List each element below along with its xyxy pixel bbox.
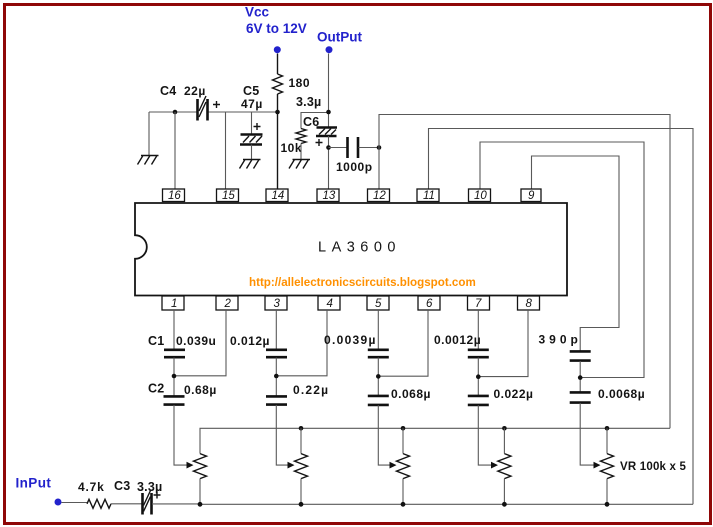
svg-text:10k: 10k xyxy=(281,141,303,155)
wire pot5 bottom xyxy=(606,479,608,505)
pin 16 xyxy=(163,189,185,202)
svg-text:5: 5 xyxy=(375,298,382,310)
svg-text:0.068µ: 0.068µ xyxy=(391,387,431,401)
capacitor 0.0068u xyxy=(570,387,645,403)
ground (under 10k) xyxy=(289,160,310,169)
node junction Vcc rail / R180 / pin14 xyxy=(275,110,280,115)
wire 10k to ground xyxy=(300,144,302,160)
wire to node2 xyxy=(275,358,277,397)
wire 1000p to pin12 line xyxy=(359,147,380,149)
pin 1 xyxy=(162,296,184,310)
svg-text:22µ: 22µ xyxy=(184,84,206,98)
svg-text:7: 7 xyxy=(475,298,482,310)
svg-text:3.3µ: 3.3µ xyxy=(137,480,162,494)
svg-text:C5: C5 xyxy=(243,84,259,98)
wire to node4 xyxy=(477,358,479,396)
wire pot3 bottom xyxy=(402,479,404,505)
capacitor 0.012u xyxy=(230,334,287,357)
pin 4 xyxy=(318,296,340,310)
capacitor C6 3.3u (polarized) xyxy=(296,95,337,146)
wire C1 to node1 xyxy=(173,358,175,397)
svg-text:0.0039µ: 0.0039µ xyxy=(324,333,377,347)
wire rail to C5 xyxy=(251,112,253,134)
svg-text:180: 180 xyxy=(289,76,311,90)
wire pin9 net (up over right, down to 390p top) xyxy=(532,156,620,351)
wire C2 to pot1 wiper xyxy=(174,405,187,465)
potentiometer VR5 xyxy=(601,454,687,479)
node band4 xyxy=(476,374,481,379)
wiper arrow pot4 xyxy=(491,462,498,469)
wire pin6 to node3 xyxy=(378,310,428,376)
svg-text:VR 100k x 5: VR 100k x 5 xyxy=(620,461,687,473)
pin 5 xyxy=(367,296,389,310)
node pot4 bottom xyxy=(502,502,507,507)
node pot2 bottom xyxy=(299,502,304,507)
node junction output/C6 top xyxy=(326,110,331,115)
node pot1 bottom xyxy=(198,502,203,507)
svg-text:http://allelectronicscircuits.: http://allelectronicscircuits.blogspot.c… xyxy=(249,276,476,289)
svg-text:C6: C6 xyxy=(303,115,319,129)
wire top supply rail (left of C4) xyxy=(149,111,197,113)
wire C6 node to 1000p xyxy=(329,147,348,149)
capacitor 0.022u xyxy=(468,387,534,405)
capacitor 0.0039u xyxy=(324,333,389,357)
wire pot4 bottom xyxy=(503,479,505,505)
capacitor C1 0.039u xyxy=(148,334,216,357)
resistor 180 xyxy=(273,74,311,94)
wire 0.022u to pot4 wiper xyxy=(478,405,491,465)
wire 0.068u to pot3 wiper xyxy=(378,405,389,465)
pin 13 xyxy=(317,189,339,202)
pin 10 xyxy=(469,189,491,202)
capacitor C4 22u (polarized, in rail) xyxy=(160,84,220,121)
wiper arrow pot1 xyxy=(187,462,194,469)
pin 3 xyxy=(265,296,287,310)
pin 14 xyxy=(266,189,288,202)
svg-text:0.012µ: 0.012µ xyxy=(230,334,270,348)
wire rail left end down to ground xyxy=(148,112,150,155)
svg-text:LA3600: LA3600 xyxy=(318,240,401,256)
wire input dot to R 4.7k xyxy=(62,503,88,504)
capacitor 0.068u xyxy=(368,387,431,405)
svg-text:390p: 390p xyxy=(539,333,582,347)
capacitor 390p xyxy=(539,333,591,361)
resistor 10k xyxy=(281,129,307,156)
wire pin3 to C 0.012u xyxy=(275,310,277,349)
wire pot3 top lead xyxy=(402,428,404,453)
IC U1 LA3600 body xyxy=(135,203,567,296)
potentiometer VR4 xyxy=(498,454,511,479)
node junction 1000p/pin12 xyxy=(377,145,382,150)
node pot3 bottom xyxy=(401,502,406,507)
svg-text:2: 2 xyxy=(224,298,232,310)
svg-text:C2: C2 xyxy=(148,382,164,396)
node pot2 top xyxy=(299,426,304,431)
svg-text:10: 10 xyxy=(474,190,487,202)
svg-text:3: 3 xyxy=(274,298,281,310)
svg-text:6: 6 xyxy=(426,298,433,310)
resistor R 4.7k xyxy=(78,480,111,508)
wiper arrow pot3 xyxy=(390,462,397,469)
capacitor C5 47u (polarized, to ground) xyxy=(240,84,263,145)
svg-text:9: 9 xyxy=(528,190,535,202)
wire pin14 to rail junction xyxy=(277,112,279,189)
pin 7 xyxy=(468,296,490,310)
svg-text:C1: C1 xyxy=(148,334,164,348)
svg-text:13: 13 xyxy=(323,190,336,202)
capacitor 0.0012u xyxy=(434,333,489,357)
svg-text:8: 8 xyxy=(526,298,533,310)
svg-text:0.039u: 0.039u xyxy=(176,334,216,348)
pin 2 xyxy=(216,296,238,310)
wire to node3 xyxy=(377,358,379,396)
potentiometer VR3 xyxy=(397,454,410,479)
svg-text:0.022µ: 0.022µ xyxy=(494,387,534,401)
capacitor 0.22u xyxy=(266,383,329,405)
svg-text:3.3µ: 3.3µ xyxy=(296,95,321,109)
svg-text:6V to 12V: 6V to 12V xyxy=(246,21,307,36)
wire pin2 to node1 xyxy=(174,310,226,376)
wire pin15 to rail xyxy=(225,112,227,189)
svg-text:Vcc: Vcc xyxy=(245,5,270,20)
potentiometer VR2 xyxy=(295,454,308,479)
wire pot top rail xyxy=(200,428,670,453)
node pot5 bottom xyxy=(605,502,610,507)
node band3 xyxy=(376,374,381,379)
capacitor C3 3.3u (polarized, input coupling) xyxy=(114,479,162,515)
wire C6 bottom to pin13 xyxy=(328,136,330,189)
node Vcc (blue terminal dot) xyxy=(245,5,307,54)
wire pin8 to node4 xyxy=(478,310,528,377)
wire top supply rail (C4 to Vcc junction) xyxy=(208,111,278,113)
svg-text:C4: C4 xyxy=(160,84,176,98)
wire pin16 to rail xyxy=(174,112,176,189)
svg-text:InPut: InPut xyxy=(16,476,52,491)
wiper arrow pot5 xyxy=(594,462,601,469)
wire output node to 10k xyxy=(301,113,329,129)
svg-text:0.0068µ: 0.0068µ xyxy=(598,387,645,401)
capacitor C2 0.68u xyxy=(148,382,217,405)
node pot3 top xyxy=(401,426,406,431)
node OutPut (blue terminal dot) xyxy=(317,30,362,54)
svg-text:1: 1 xyxy=(171,298,177,310)
wire 390p to node5 xyxy=(579,361,581,392)
wire pin10 net (up over right, down to band5 node) xyxy=(480,142,644,378)
node pot4 top xyxy=(502,426,507,431)
potentiometer VR1 xyxy=(194,454,207,479)
svg-text:14: 14 xyxy=(272,190,285,202)
wire 0.0068u to pot5 wiper xyxy=(580,403,593,465)
pin 9 xyxy=(521,189,541,202)
wire 4.7k to C3 xyxy=(111,503,142,505)
node band1 xyxy=(172,374,177,379)
wire pin12 net (up over to right, down to pot rail) xyxy=(379,115,670,429)
node band5 xyxy=(578,375,583,380)
svg-text:0.0012µ: 0.0012µ xyxy=(434,333,481,347)
pin 15 xyxy=(217,189,239,202)
wiper arrow pot2 xyxy=(288,462,295,469)
svg-text:11: 11 xyxy=(423,190,435,202)
ground (left) xyxy=(138,156,159,165)
wire 0.22u to pot2 wiper xyxy=(276,405,287,465)
wire pot5 top lead xyxy=(606,428,608,453)
pin 8 xyxy=(518,296,540,310)
wire pin7 to C 0.0012u xyxy=(477,310,479,349)
node pot5 top xyxy=(605,426,610,431)
wire pot4 top lead xyxy=(503,428,505,453)
wire pot1 bottom xyxy=(199,479,201,505)
wire pot2 bottom xyxy=(300,479,302,505)
wire pot2 top lead xyxy=(300,428,302,453)
node InPut (blue terminal dot) xyxy=(16,476,62,506)
wire pin1 to C1 xyxy=(173,310,175,349)
wire Vcc dot to R 180 xyxy=(277,54,279,75)
svg-text:15: 15 xyxy=(222,190,235,202)
wire OutPut dot down to C6 xyxy=(328,54,330,128)
wire pin11 net (up over to far right, down to input rail) xyxy=(429,129,694,505)
wire R180 to Vcc rail junction xyxy=(277,94,279,112)
ground (under C5) xyxy=(240,160,261,169)
pin 6 xyxy=(418,296,440,310)
svg-text:12: 12 xyxy=(373,190,386,202)
svg-text:0.22µ: 0.22µ xyxy=(293,383,329,397)
svg-text:OutPut: OutPut xyxy=(317,30,362,45)
svg-text:47µ: 47µ xyxy=(241,97,263,111)
node band2 xyxy=(274,374,279,379)
node junction C6/1000p/pin13 xyxy=(326,145,331,150)
wire pin5 to C 0.0039u xyxy=(377,310,379,349)
svg-text:4: 4 xyxy=(327,298,333,310)
wire C5 to ground xyxy=(251,145,253,160)
svg-text:0.68µ: 0.68µ xyxy=(184,383,217,397)
svg-text:C3: C3 xyxy=(114,479,130,493)
svg-text:1000p: 1000p xyxy=(336,160,373,174)
pin 11 xyxy=(417,189,439,202)
pin 12 xyxy=(368,189,390,202)
wire input rail xyxy=(152,503,693,505)
wire pin4 to node2 xyxy=(276,310,327,376)
node junction pin16/rail xyxy=(173,110,178,115)
svg-text:4.7k: 4.7k xyxy=(78,480,105,494)
svg-text:16: 16 xyxy=(168,190,181,202)
capacitor 1000p xyxy=(336,137,373,174)
